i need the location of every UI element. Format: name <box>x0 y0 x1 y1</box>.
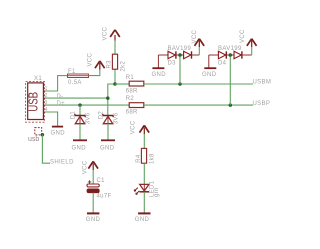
wire USBM row <box>144 83 253 85</box>
fuse F1 <box>68 69 89 86</box>
ground usb pin4 <box>51 127 66 137</box>
ground for LED1 <box>135 213 151 223</box>
svg-text:1k8: 1k8 <box>150 153 156 164</box>
svg-text:USBM: USBM <box>253 80 272 86</box>
pin 3 <box>43 100 47 106</box>
junction D4 center <box>229 53 233 57</box>
resistor R2 <box>126 96 144 116</box>
svg-text:68R: 68R <box>126 89 138 95</box>
power VCC for D3 <box>192 29 204 55</box>
power VCC for LED chain <box>131 120 150 148</box>
svg-text:grn: grn <box>154 187 160 197</box>
svg-text:usb: usb <box>28 136 39 143</box>
svg-text:R2: R2 <box>126 96 135 102</box>
wire R1 row left <box>115 83 129 85</box>
power VCC above fuse <box>88 52 105 69</box>
svg-text:GND: GND <box>202 72 217 78</box>
ground for C1 <box>86 213 101 223</box>
wire R4 to LED <box>143 163 145 184</box>
power VCC above R3 <box>103 26 120 54</box>
svg-text:BAV199: BAV199 <box>168 46 192 52</box>
usb shield pin box <box>28 128 42 143</box>
svg-text:VCC: VCC <box>83 160 89 174</box>
junction D4 drop <box>229 103 233 107</box>
svg-text:GND: GND <box>135 217 150 223</box>
junction D3 drop <box>178 82 182 86</box>
wire D3 drop <box>179 55 181 84</box>
svg-text:GND: GND <box>100 146 115 152</box>
svg-text:D2: D2 <box>99 111 105 120</box>
wire pin4 to gnd <box>45 112 57 126</box>
junction shield <box>41 133 45 137</box>
wire D1 drop <box>79 105 81 116</box>
wire VBUS pin1 to fuse <box>45 76 67 91</box>
wire USBP row <box>144 104 253 106</box>
junction below R3 <box>113 82 117 86</box>
svg-text:X1: X1 <box>34 76 42 82</box>
ground for D1 <box>72 140 88 151</box>
svg-text:GND: GND <box>72 146 87 152</box>
svg-text:SHIELD: SHIELD <box>50 160 74 166</box>
dual diode D3 BAV199 <box>158 46 199 68</box>
svg-text:VCC: VCC <box>131 120 137 134</box>
svg-text:C1: C1 <box>97 178 106 184</box>
svg-text:D1: D1 <box>71 111 77 120</box>
svg-text:VCC: VCC <box>240 29 246 43</box>
svg-text:68R: 68R <box>126 110 138 116</box>
ground for D2 <box>100 140 115 151</box>
wire C1 to gnd <box>92 193 94 213</box>
svg-text:2k2: 2k2 <box>121 60 127 71</box>
svg-text:GND: GND <box>152 72 167 78</box>
zener diode D1 <box>71 111 92 140</box>
svg-text:GND: GND <box>51 130 66 136</box>
usb connector X1 body <box>26 82 45 123</box>
svg-text:3V6: 3V6 <box>114 112 120 124</box>
svg-text:0.5A: 0.5A <box>68 80 82 86</box>
zener diode D2 <box>99 111 120 140</box>
junction D1 on D+ <box>78 103 82 107</box>
svg-text:USB: USB <box>27 92 41 112</box>
wire D+ net <box>45 104 129 106</box>
svg-text:R3: R3 <box>107 60 113 69</box>
svg-text:F1: F1 <box>68 69 76 75</box>
svg-text:R1: R1 <box>126 75 135 81</box>
pin 2 <box>43 93 47 99</box>
svg-text:BAV199: BAV199 <box>218 46 242 52</box>
LED LED1 <box>134 180 160 197</box>
capacitor C1 polarized <box>87 178 112 200</box>
power VCC for D4 <box>240 29 257 55</box>
junction on D- <box>106 96 110 100</box>
power VCC for C1 <box>83 160 99 183</box>
wire R3 pullup to D- <box>108 69 115 116</box>
svg-text:D4: D4 <box>218 61 227 67</box>
svg-text:R4: R4 <box>136 154 142 163</box>
svg-text:VCC: VCC <box>192 29 198 43</box>
resistor R3 <box>107 54 127 71</box>
svg-text:D3: D3 <box>168 61 177 67</box>
pin 1 <box>43 86 47 92</box>
svg-text:GND: GND <box>86 217 101 223</box>
svg-text:3V6: 3V6 <box>86 112 92 124</box>
dual diode D4 BAV199 <box>209 46 252 68</box>
wire LED to gnd <box>143 192 145 213</box>
wire D- net <box>45 97 108 99</box>
svg-text:4u7F: 4u7F <box>97 194 112 200</box>
svg-text:VCC: VCC <box>103 26 109 40</box>
pin 4 <box>43 107 47 113</box>
svg-text:VCC: VCC <box>88 52 94 66</box>
resistor R1 <box>126 75 144 95</box>
wire shield <box>42 135 50 164</box>
wire fuse to VCC <box>89 69 100 76</box>
wire D4 drop <box>229 55 231 105</box>
svg-text:D+: D+ <box>57 101 66 107</box>
ground for D4 <box>202 68 217 78</box>
resistor R4 <box>136 148 156 164</box>
ground for D3 <box>152 68 167 78</box>
junction D3 center <box>178 53 182 57</box>
svg-text:D-: D- <box>57 94 64 100</box>
svg-text:USBP: USBP <box>253 101 271 107</box>
